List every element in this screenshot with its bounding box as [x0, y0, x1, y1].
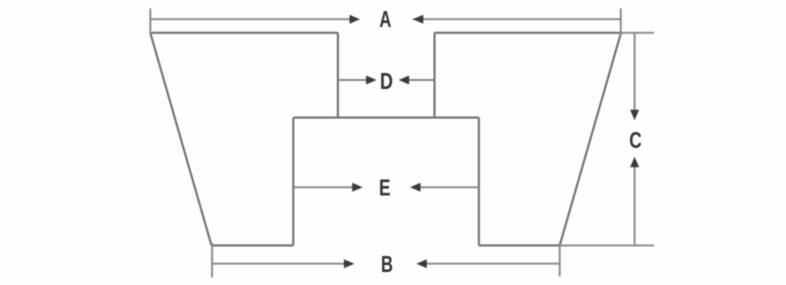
arrowhead E left-pointing	[410, 183, 421, 192]
svg-text:C: C	[629, 129, 642, 154]
left trapezoid inner vertical	[337, 33, 339, 118]
dimension A right extension tick	[620, 8, 622, 36]
svg-text:B: B	[381, 253, 393, 278]
dimension E right line	[420, 186, 479, 188]
center channel left vertical	[292, 118, 294, 246]
dimension B left line	[212, 263, 344, 265]
right trapezoid top edge	[435, 32, 622, 34]
dimension A left extension tick	[149, 8, 151, 34]
center channel right vertical	[478, 118, 480, 246]
left trapezoid top edge	[150, 32, 338, 34]
dimension D left line	[338, 79, 367, 81]
dimension C top extension line	[621, 32, 654, 34]
center channel top edge	[293, 117, 479, 119]
right trapezoid bottom edge	[479, 244, 560, 246]
dimension B left extension tick	[211, 243, 213, 278]
dimension C bottom extension line	[560, 244, 654, 246]
dimension A right line	[413, 18, 621, 20]
arrowhead D right-pointing	[366, 76, 377, 85]
dimension C lower line	[634, 167, 636, 246]
dimension C upper line	[634, 33, 636, 110]
dimension A left line	[150, 18, 350, 20]
right trapezoid sloped side	[560, 33, 621, 246]
arrowhead C down-pointing	[630, 110, 639, 121]
right trapezoid inner vertical	[433, 33, 435, 118]
arrowhead A right-pointing	[350, 15, 361, 24]
svg-text:D: D	[380, 69, 393, 95]
arrowhead A left-pointing	[413, 15, 424, 24]
svg-text:A: A	[379, 7, 391, 32]
dimension B right line	[426, 263, 559, 265]
left trapezoid sloped side	[150, 33, 211, 246]
dimension E left line	[293, 186, 352, 188]
arrowhead E right-pointing	[352, 183, 363, 192]
svg-text:E: E	[379, 176, 391, 201]
arrowhead D left-pointing	[399, 76, 410, 85]
dimension B right extension tick	[559, 246, 561, 276]
arrowhead B left-pointing	[416, 259, 427, 268]
left trapezoid bottom edge	[212, 244, 294, 246]
arrowhead C up-pointing	[630, 157, 639, 168]
arrowhead B right-pointing	[344, 259, 355, 268]
dimension D right line	[409, 79, 435, 81]
